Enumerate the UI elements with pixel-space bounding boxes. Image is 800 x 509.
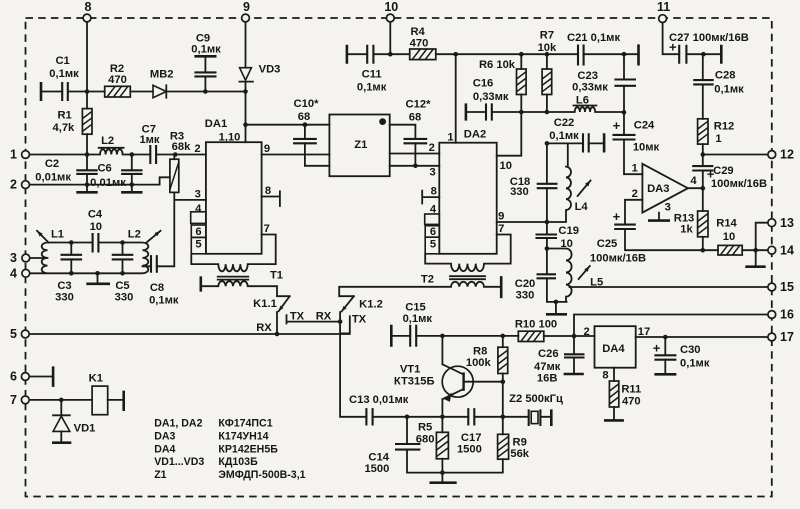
svg-text:К174УН14: К174УН14 <box>218 430 268 442</box>
svg-text:10: 10 <box>384 0 398 14</box>
svg-text:6: 6 <box>195 226 201 238</box>
svg-text:C16: C16 <box>473 78 494 90</box>
svg-text:0,01мк: 0,01мк <box>90 177 126 189</box>
svg-text:R12: R12 <box>714 121 735 133</box>
svg-text:1,10: 1,10 <box>219 132 241 144</box>
svg-text:R6 10k: R6 10k <box>479 59 516 71</box>
svg-text:L1: L1 <box>51 229 64 241</box>
svg-text:VT1: VT1 <box>400 364 421 376</box>
svg-text:C6: C6 <box>97 163 111 175</box>
svg-text:K1.2: K1.2 <box>359 299 383 311</box>
svg-text:17: 17 <box>638 326 650 338</box>
svg-text:0,1мк: 0,1мк <box>149 295 179 307</box>
svg-text:DA1: DA1 <box>205 118 227 130</box>
svg-text:56k: 56k <box>510 448 529 460</box>
svg-text:10: 10 <box>723 231 735 243</box>
svg-text:C24: C24 <box>634 120 655 132</box>
svg-text:C29: C29 <box>713 165 734 177</box>
svg-text:0,33мк: 0,33мк <box>572 81 608 93</box>
svg-text:C19: C19 <box>558 225 579 237</box>
svg-text:C26: C26 <box>538 348 559 360</box>
svg-text:C27 100мк/16В: C27 100мк/16В <box>669 32 749 44</box>
svg-text:0,1мк: 0,1мк <box>549 130 579 142</box>
svg-text:1500: 1500 <box>364 463 389 475</box>
svg-text:330: 330 <box>510 186 529 198</box>
svg-text:0,1мк: 0,1мк <box>680 358 710 370</box>
svg-text:R14: R14 <box>716 218 737 230</box>
svg-text:DA2: DA2 <box>464 129 486 141</box>
svg-text:C15: C15 <box>405 302 426 314</box>
svg-text:DA4: DA4 <box>602 343 625 355</box>
svg-text:DA4: DA4 <box>154 443 175 455</box>
svg-text:470: 470 <box>108 74 127 86</box>
svg-text:0,01мк: 0,01мк <box>35 172 71 184</box>
svg-text:L2: L2 <box>101 135 114 147</box>
svg-text:TX: TX <box>352 314 367 326</box>
svg-text:8: 8 <box>265 185 271 197</box>
svg-text:68: 68 <box>298 111 310 123</box>
svg-text:10: 10 <box>560 238 572 250</box>
svg-text:4: 4 <box>690 175 697 187</box>
svg-text:6: 6 <box>10 370 17 384</box>
svg-text:2: 2 <box>429 142 435 154</box>
svg-text:DA3: DA3 <box>154 430 175 442</box>
svg-text:КТ315Б: КТ315Б <box>394 376 435 388</box>
svg-text:C3: C3 <box>57 280 71 292</box>
svg-text:68: 68 <box>409 112 421 124</box>
svg-text:C8: C8 <box>150 282 164 294</box>
svg-text:100мк/16В: 100мк/16В <box>711 178 767 190</box>
svg-text:C20: C20 <box>515 278 536 290</box>
svg-text:680: 680 <box>416 434 435 446</box>
svg-text:0,1мк: 0,1мк <box>357 82 387 94</box>
svg-text:10: 10 <box>499 160 511 172</box>
svg-text:5: 5 <box>430 239 436 251</box>
svg-text:0,1мк: 0,1мк <box>714 84 744 96</box>
svg-text:DA3: DA3 <box>647 183 669 195</box>
svg-text:VD1...VD3: VD1...VD3 <box>154 456 204 468</box>
svg-text:3: 3 <box>665 202 671 214</box>
svg-text:2: 2 <box>632 188 638 200</box>
svg-text:2: 2 <box>10 178 17 192</box>
svg-text:T1: T1 <box>270 269 283 281</box>
svg-text:C23: C23 <box>577 70 598 82</box>
svg-text:R7: R7 <box>540 30 554 42</box>
svg-text:9: 9 <box>498 211 504 223</box>
svg-text:T2: T2 <box>421 273 434 285</box>
svg-text:5: 5 <box>195 239 201 251</box>
svg-text:R11: R11 <box>621 384 641 396</box>
svg-text:DA1, DA2: DA1, DA2 <box>154 418 202 430</box>
svg-text:МВ2: МВ2 <box>150 69 174 81</box>
svg-text:C13 0,01мк: C13 0,01мк <box>349 394 409 406</box>
svg-text:6: 6 <box>430 226 436 238</box>
svg-text:7: 7 <box>498 223 504 235</box>
svg-text:1мк: 1мк <box>139 134 159 146</box>
svg-text:КФ174ПС1: КФ174ПС1 <box>218 418 272 430</box>
svg-text:4,7k: 4,7k <box>53 122 76 134</box>
svg-text:16: 16 <box>780 308 794 322</box>
svg-text:КР142ЕН5Б: КР142ЕН5Б <box>218 443 278 455</box>
svg-text:R10 100: R10 100 <box>515 319 557 331</box>
svg-text:330: 330 <box>115 292 134 304</box>
svg-text:VD1: VD1 <box>74 423 96 435</box>
svg-text:17: 17 <box>780 330 794 344</box>
svg-text:+: + <box>613 118 621 133</box>
svg-text:5: 5 <box>10 327 17 341</box>
svg-text:1: 1 <box>10 148 17 162</box>
svg-text:RX: RX <box>316 310 332 322</box>
svg-text:2: 2 <box>583 326 589 338</box>
svg-text:VD3: VD3 <box>259 64 281 76</box>
svg-text:1: 1 <box>447 131 453 143</box>
svg-text:100k: 100k <box>466 357 492 369</box>
svg-text:R9: R9 <box>513 437 527 449</box>
svg-text:4: 4 <box>195 203 202 215</box>
svg-text:Z1: Z1 <box>154 469 166 481</box>
svg-text:L5: L5 <box>590 276 603 288</box>
svg-text:C11: C11 <box>362 69 382 81</box>
svg-text:K1.1: K1.1 <box>253 298 277 310</box>
svg-text:C25: C25 <box>597 238 618 250</box>
svg-text:L6: L6 <box>576 95 589 107</box>
svg-text:ЭМФДП-500В-3,1: ЭМФДП-500В-3,1 <box>218 469 305 481</box>
svg-text:10k: 10k <box>538 42 557 54</box>
svg-text:4: 4 <box>10 266 17 280</box>
svg-text:330: 330 <box>55 292 74 304</box>
svg-text:R8: R8 <box>473 346 487 358</box>
svg-text:C12*: C12* <box>406 99 432 111</box>
svg-text:TX: TX <box>290 310 305 322</box>
svg-text:8: 8 <box>85 0 92 14</box>
svg-text:470: 470 <box>410 38 429 50</box>
svg-text:16В: 16В <box>537 373 558 385</box>
svg-text:C17: C17 <box>461 432 482 444</box>
svg-text:C1: C1 <box>55 55 69 67</box>
svg-text:9: 9 <box>243 0 250 14</box>
svg-text:K1: K1 <box>89 373 103 385</box>
svg-text:C2: C2 <box>45 158 59 170</box>
svg-text:2: 2 <box>194 143 200 155</box>
svg-text:7: 7 <box>264 223 270 235</box>
svg-text:13: 13 <box>780 216 794 230</box>
svg-text:9: 9 <box>264 143 270 155</box>
svg-text:1: 1 <box>715 133 721 145</box>
svg-text:1: 1 <box>632 163 638 175</box>
svg-text:0,1мк: 0,1мк <box>403 313 433 325</box>
svg-text:R4: R4 <box>410 26 425 38</box>
svg-text:+: + <box>613 209 621 224</box>
svg-text:7: 7 <box>10 393 17 407</box>
svg-text:47мк: 47мк <box>534 361 561 373</box>
svg-text:8: 8 <box>431 185 437 197</box>
svg-text:0,33мк: 0,33мк <box>473 91 509 103</box>
svg-text:4: 4 <box>430 204 437 216</box>
svg-text:R1: R1 <box>57 110 71 122</box>
svg-text:C4: C4 <box>88 209 103 221</box>
svg-text:68k: 68k <box>172 141 191 153</box>
svg-text:8: 8 <box>602 370 608 382</box>
svg-text:L2: L2 <box>128 229 141 241</box>
svg-text:C28: C28 <box>715 70 736 82</box>
svg-text:14: 14 <box>780 243 794 257</box>
svg-text:C21 0,1мк: C21 0,1мк <box>567 32 620 44</box>
svg-text:C5: C5 <box>115 280 129 292</box>
svg-text:100мк/16В: 100мк/16В <box>590 253 646 265</box>
svg-text:0,1мк: 0,1мк <box>191 44 221 56</box>
svg-text:C14: C14 <box>368 452 389 464</box>
svg-text:L4: L4 <box>575 201 589 213</box>
svg-text:12: 12 <box>780 148 794 162</box>
svg-text:RX: RX <box>256 322 272 334</box>
svg-text:3: 3 <box>10 251 17 265</box>
svg-text:10мк: 10мк <box>633 142 660 154</box>
svg-text:330: 330 <box>516 290 535 302</box>
svg-text:Z2 500кГц: Z2 500кГц <box>509 393 563 405</box>
svg-text:11: 11 <box>657 0 670 14</box>
svg-text:C22: C22 <box>554 117 575 129</box>
svg-text:C30: C30 <box>680 344 701 356</box>
svg-text:3: 3 <box>195 189 201 201</box>
svg-text:3: 3 <box>429 167 435 179</box>
svg-text:0,1мк: 0,1мк <box>49 68 79 80</box>
svg-text:C10*: C10* <box>294 98 320 110</box>
svg-text:Z1: Z1 <box>354 139 367 151</box>
svg-text:1500: 1500 <box>457 444 482 456</box>
svg-text:15: 15 <box>780 280 794 294</box>
svg-text:470: 470 <box>622 396 641 408</box>
svg-text:10: 10 <box>90 221 102 233</box>
svg-text:1k: 1k <box>680 224 693 236</box>
svg-text:+: + <box>653 341 661 356</box>
svg-text:КД103Б: КД103Б <box>218 456 258 468</box>
svg-text:R5: R5 <box>418 422 432 434</box>
